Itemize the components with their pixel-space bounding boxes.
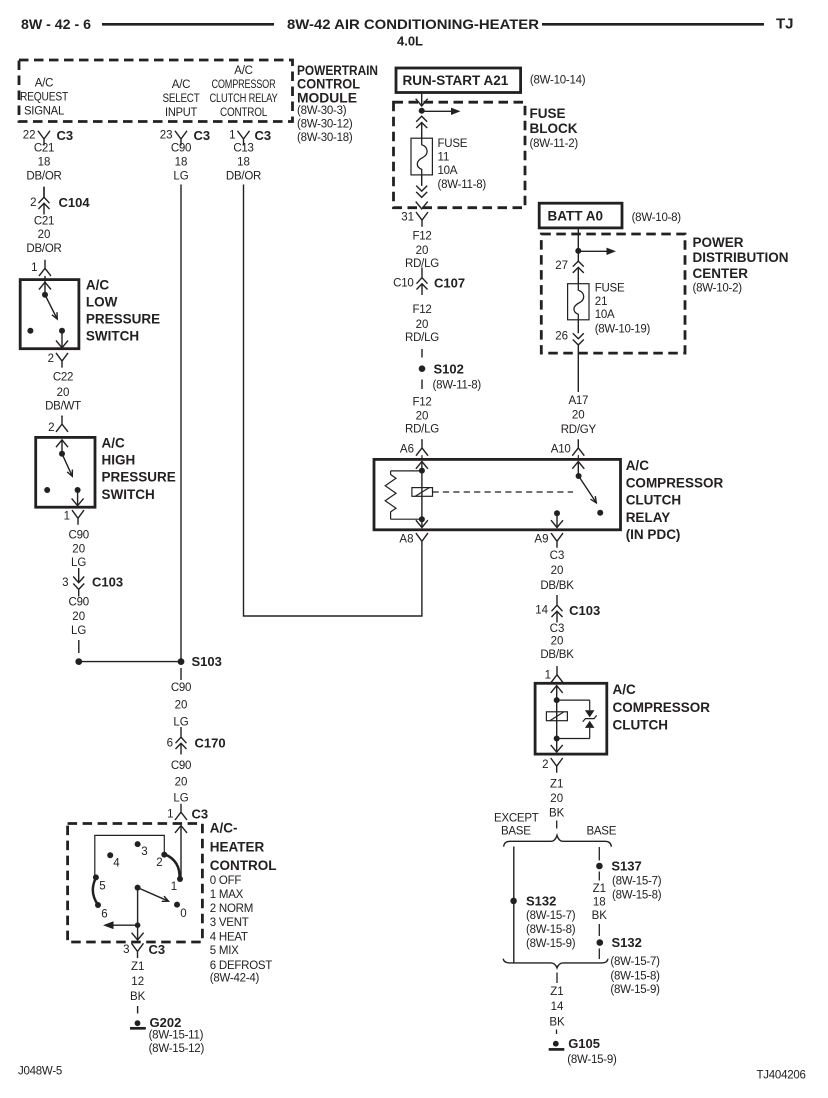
svg-text:SELECT: SELECT <box>163 93 200 105</box>
wire stub above C104 <box>43 187 45 198</box>
svg-text:(8W-15-9): (8W-15-9) <box>567 1054 617 1066</box>
svg-text:11: 11 <box>438 152 450 164</box>
HP switch entry arrow <box>56 440 68 447</box>
relay coil bottom junction dot <box>419 516 425 522</box>
ground G105 symbol <box>553 1041 559 1047</box>
svg-text:5: 5 <box>99 881 105 893</box>
svg-text:A/C: A/C <box>35 78 53 90</box>
heater control junction dot <box>135 922 141 928</box>
svg-text:1: 1 <box>171 881 177 893</box>
svg-text:(8W-15-7): (8W-15-7) <box>612 876 662 888</box>
relay A8 exit arrow <box>416 520 428 527</box>
svg-text:S137: S137 <box>611 859 641 874</box>
svg-text:REQUEST: REQUEST <box>20 92 68 104</box>
clutch top junction dot <box>554 697 560 703</box>
option split brace <box>504 835 612 846</box>
svg-text:18: 18 <box>175 157 188 169</box>
svg-text:LG: LG <box>173 171 188 183</box>
svg-text:C10: C10 <box>393 277 413 289</box>
heater control contact 1 dot <box>177 876 183 882</box>
LP switch NC contact dot <box>27 328 33 334</box>
svg-text:DB/BK: DB/BK <box>540 580 574 592</box>
wire base branch (dashed) <box>598 847 600 861</box>
svg-text:C90: C90 <box>69 597 89 609</box>
heater control arc contact 5 to 6 <box>93 878 98 904</box>
svg-text:8W - 42 - 6: 8W - 42 - 6 <box>21 16 91 32</box>
wire A10 fork into relay box <box>577 455 579 459</box>
relay A9 wire <box>556 513 558 527</box>
svg-text:LOW: LOW <box>86 295 118 310</box>
svg-text:C3: C3 <box>57 128 74 143</box>
heater control contact 4 dot <box>107 852 113 858</box>
wire clutch fork into box <box>556 682 558 683</box>
HP switch exit wire <box>77 490 79 506</box>
svg-text:CONTROL: CONTROL <box>220 107 268 119</box>
clutch diode branch top lead <box>557 699 590 701</box>
svg-text:COMPRESSOR: COMPRESSOR <box>626 475 724 490</box>
heater control contact 2 dot <box>161 852 167 858</box>
svg-text:(8W-15-7): (8W-15-7) <box>526 910 576 922</box>
svg-text:0: 0 <box>180 908 186 920</box>
HP switch NC contact dot <box>44 487 50 493</box>
relay coil top junction dot <box>419 468 425 474</box>
splice S103 dot <box>178 658 185 665</box>
svg-text:BK: BK <box>592 910 608 922</box>
svg-text:(8W-11-2): (8W-11-2) <box>530 138 579 150</box>
PCM dashed box <box>19 60 293 122</box>
svg-text:1: 1 <box>229 130 235 142</box>
LP switch exit arrow <box>56 341 68 348</box>
heater control left arrow head <box>103 921 114 929</box>
svg-text:FUSE: FUSE <box>530 106 566 121</box>
wire stub above S103 left dot <box>78 640 80 653</box>
heater control rail wire 2-to-5 <box>95 835 165 877</box>
splice S132 (except base) dot <box>510 898 517 905</box>
svg-text:A/C: A/C <box>86 278 110 293</box>
svg-text:DB/OR: DB/OR <box>26 243 61 255</box>
LP switch entry arrow <box>39 282 51 289</box>
svg-text:PRESSURE: PRESSURE <box>102 470 176 485</box>
clutch entry arrow <box>551 686 563 693</box>
svg-text:DISTRIBUTION: DISTRIBUTION <box>693 250 789 265</box>
svg-text:C90: C90 <box>69 530 89 542</box>
svg-text:14: 14 <box>535 604 548 616</box>
svg-text:1: 1 <box>167 809 173 821</box>
svg-text:A10: A10 <box>551 444 571 456</box>
fuse 21 terminal chevrons (bottom) <box>573 333 584 345</box>
A/C high pressure switch box <box>36 437 95 507</box>
ground G202 symbol <box>135 1020 141 1026</box>
svg-text:CONTROL: CONTROL <box>297 77 360 92</box>
svg-text:TJ404206: TJ404206 <box>757 1069 806 1081</box>
svg-text:C90: C90 <box>171 143 191 155</box>
LP switch common contact dot <box>42 292 48 298</box>
wire PDC exit down <box>577 345 579 392</box>
svg-text:21: 21 <box>595 296 608 308</box>
fuse block dashed box <box>394 102 526 208</box>
svg-text:SWITCH: SWITCH <box>102 487 155 502</box>
splice S102 dot <box>419 365 426 372</box>
svg-text:0 OFF: 0 OFF <box>210 875 242 887</box>
svg-text:(8W-15-12): (8W-15-12) <box>149 1043 205 1055</box>
svg-text:C21: C21 <box>34 143 54 155</box>
svg-text:SIGNAL: SIGNAL <box>24 106 65 118</box>
svg-text:C3: C3 <box>550 550 565 562</box>
svg-text:(8W-30-18): (8W-30-18) <box>297 132 353 144</box>
resistor (relay) zigzag <box>385 471 396 519</box>
svg-text:F12: F12 <box>412 396 431 408</box>
svg-text:F12: F12 <box>412 304 431 316</box>
svg-text:Z1: Z1 <box>593 883 606 895</box>
wire stub below S102 <box>421 380 423 390</box>
svg-text:20: 20 <box>572 410 585 422</box>
svg-text:S132: S132 <box>612 935 642 950</box>
svg-text:INPUT: INPUT <box>165 107 197 119</box>
LP switch arm <box>45 295 57 319</box>
svg-text:20: 20 <box>175 776 188 788</box>
svg-text:CLUTCH: CLUTCH <box>613 717 669 732</box>
resistor (relay) top lead <box>391 470 422 472</box>
svg-text:2: 2 <box>48 353 54 365</box>
svg-text:4 HEAT: 4 HEAT <box>210 932 248 944</box>
svg-text:(8W-42-4): (8W-42-4) <box>210 973 260 985</box>
svg-text:(8W-10-8): (8W-10-8) <box>632 212 682 224</box>
relay A9 exit arrow <box>551 520 563 527</box>
svg-text:23: 23 <box>160 130 173 142</box>
wire to fuse 21 <box>577 267 579 283</box>
HP switch output contact dot <box>75 487 81 493</box>
svg-text:C103: C103 <box>569 603 600 618</box>
wire stub below S103 <box>180 668 182 680</box>
splice S103 left end dot <box>75 658 82 665</box>
svg-text:18: 18 <box>237 157 250 169</box>
heater control entry wire <box>180 826 182 879</box>
svg-text:20: 20 <box>72 544 85 556</box>
svg-text:RD/LG: RD/LG <box>405 424 439 436</box>
svg-text:C22: C22 <box>53 371 73 383</box>
svg-text:C170: C170 <box>195 736 226 751</box>
relay switch common dot <box>576 473 582 479</box>
LP switch wire to common contact <box>44 282 46 295</box>
svg-text:DB/OR: DB/OR <box>226 171 261 183</box>
svg-text:(8W-15-8): (8W-15-8) <box>526 924 576 936</box>
svg-text:6: 6 <box>101 908 107 920</box>
wire below fuse 21 <box>577 320 579 333</box>
fuse block feed junction dot <box>419 108 425 114</box>
svg-text:(8W-15-9): (8W-15-9) <box>610 984 660 996</box>
svg-text:(8W-15-8): (8W-15-8) <box>610 970 660 982</box>
svg-text:(8W-15-11): (8W-15-11) <box>149 1030 204 1042</box>
svg-text:(8W-15-7): (8W-15-7) <box>610 956 660 968</box>
svg-text:12: 12 <box>131 976 144 988</box>
svg-text:20: 20 <box>551 565 564 577</box>
heater control arc contact 2 to 1 <box>165 854 180 878</box>
svg-text:14: 14 <box>551 1001 564 1013</box>
svg-text:C3: C3 <box>149 942 166 957</box>
wire RUN-START to fuse block <box>421 93 423 106</box>
heater control wire to left arrow <box>112 924 138 926</box>
svg-text:MODULE: MODULE <box>297 91 357 106</box>
svg-text:18: 18 <box>593 896 606 908</box>
svg-text:LG: LG <box>71 557 86 569</box>
svg-text:A17: A17 <box>568 395 588 407</box>
svg-text:Z1: Z1 <box>550 986 563 998</box>
heater control wiper arm <box>138 888 169 902</box>
svg-text:F12: F12 <box>412 231 431 243</box>
svg-text:27: 27 <box>555 260 568 272</box>
svg-text:20: 20 <box>416 411 429 423</box>
svg-text:G105: G105 <box>568 1036 600 1051</box>
clutch diode branch bottom lead <box>589 728 591 739</box>
svg-text:C90: C90 <box>171 760 191 772</box>
wire stub above G105 <box>556 1030 558 1035</box>
A/C low pressure switch box <box>20 280 79 349</box>
svg-text:10A: 10A <box>595 309 615 321</box>
svg-text:8W-42 AIR CONDITIONING-HEATER: 8W-42 AIR CONDITIONING-HEATER <box>287 16 539 32</box>
relay A6 entry arrow <box>416 462 428 469</box>
fuse block exit arrow <box>416 202 428 209</box>
svg-text:C3: C3 <box>192 807 209 822</box>
svg-text:BK: BK <box>549 808 565 820</box>
svg-text:RUN-START A21: RUN-START A21 <box>403 73 509 88</box>
clutch suppression diode <box>585 710 595 717</box>
svg-text:2: 2 <box>542 759 548 771</box>
svg-text:6: 6 <box>167 738 173 750</box>
svg-text:2: 2 <box>30 197 36 209</box>
svg-text:1: 1 <box>64 511 70 523</box>
svg-text:C21: C21 <box>34 215 54 227</box>
heater control wire pivot down <box>137 888 139 926</box>
svg-text:A8: A8 <box>399 533 413 545</box>
HP switch arm <box>62 454 72 477</box>
splice S103 horizontal wire <box>79 661 181 663</box>
svg-text:A/C-: A/C- <box>210 821 238 836</box>
wire base branch lower (dashed) <box>598 924 600 936</box>
option merge brace <box>503 959 608 968</box>
svg-text:FUSE: FUSE <box>595 282 625 294</box>
svg-text:A/C: A/C <box>234 65 252 77</box>
svg-text:A9: A9 <box>534 533 548 545</box>
svg-text:20: 20 <box>38 229 51 241</box>
svg-text:S103: S103 <box>192 654 222 669</box>
heater control contact 3 dot <box>135 841 141 847</box>
wire BATT to PDC fuse <box>577 228 579 261</box>
svg-text:EXCEPT: EXCEPT <box>494 813 539 825</box>
fuse 11 element <box>411 138 432 175</box>
svg-text:COMPRESSOR: COMPRESSOR <box>613 700 711 715</box>
svg-text:2: 2 <box>48 422 54 434</box>
svg-text:A6: A6 <box>400 444 414 456</box>
svg-text:C90: C90 <box>171 682 191 694</box>
svg-text:BATT A0: BATT A0 <box>548 208 604 223</box>
svg-text:20: 20 <box>551 636 564 648</box>
fuse block feed arrow <box>422 110 452 112</box>
A/C compressor clutch relay box <box>374 459 621 529</box>
fuse 21 terminal chevrons (top) <box>573 261 584 273</box>
relay A9 pickup dot <box>554 510 560 516</box>
svg-text:G202: G202 <box>150 1015 182 1030</box>
relay coil symbol <box>412 488 433 497</box>
svg-text:(IN PDC): (IN PDC) <box>626 527 681 542</box>
svg-text:1 MAX: 1 MAX <box>210 889 244 901</box>
svg-text:6 DEFROST: 6 DEFROST <box>210 960 273 972</box>
svg-text:CONTROL: CONTROL <box>210 858 277 873</box>
svg-text:C103: C103 <box>92 575 123 590</box>
wire A6 fork into relay box <box>421 455 423 459</box>
svg-text:3: 3 <box>123 944 129 956</box>
PDC feed arrow <box>578 250 607 252</box>
svg-text:A/C: A/C <box>613 682 637 697</box>
svg-text:CLUTCH: CLUTCH <box>626 493 682 508</box>
svg-text:20: 20 <box>175 700 188 712</box>
fuse block entry arrow <box>416 99 428 106</box>
svg-text:2: 2 <box>156 857 162 869</box>
svg-text:BASE: BASE <box>586 825 616 837</box>
wire stub below merge <box>556 973 558 984</box>
wire relay control PCM to relay A8 <box>244 185 422 617</box>
svg-text:FUSE: FUSE <box>438 138 468 150</box>
relay A10 entry arrow <box>572 462 584 469</box>
svg-text:J048W-5: J048W-5 <box>18 1065 62 1077</box>
svg-text:(8W-15-9): (8W-15-9) <box>526 938 576 950</box>
relay A10 wire <box>577 462 579 477</box>
svg-text:3: 3 <box>141 846 147 858</box>
svg-text:1: 1 <box>31 262 37 274</box>
wire stub above option split <box>556 821 558 829</box>
svg-text:Z1: Z1 <box>131 961 144 973</box>
LP switch output contact dot <box>59 328 65 334</box>
svg-text:BK: BK <box>130 991 146 1003</box>
svg-text:TJ: TJ <box>776 16 794 33</box>
svg-text:20: 20 <box>550 793 563 805</box>
svg-text:(8W-10-14): (8W-10-14) <box>530 74 586 86</box>
svg-text:(8W-15-8): (8W-15-8) <box>612 890 662 902</box>
svg-text:BASE: BASE <box>501 825 531 837</box>
svg-text:18: 18 <box>38 157 51 169</box>
svg-text:CLUTCH RELAY: CLUTCH RELAY <box>210 93 278 105</box>
wire stub above G202 <box>137 1006 139 1014</box>
clutch coil symbol <box>546 712 567 721</box>
LP switch exit wire <box>61 331 63 348</box>
svg-text:LG: LG <box>71 625 86 637</box>
svg-text:10A: 10A <box>438 165 458 177</box>
svg-text:HIGH: HIGH <box>102 453 136 468</box>
svg-text:4: 4 <box>113 858 120 870</box>
resistor (relay) bottom lead <box>391 518 422 520</box>
svg-text:20: 20 <box>416 245 429 257</box>
heater control contact 6 dot <box>95 902 101 908</box>
svg-text:20: 20 <box>416 319 429 331</box>
heater control entry arrow <box>175 826 187 833</box>
svg-text:2 NORM: 2 NORM <box>210 903 253 915</box>
svg-text:5 MIX: 5 MIX <box>210 945 239 957</box>
fuse 11 terminal chevrons (top) <box>416 116 427 128</box>
wire into LP switch <box>44 276 46 282</box>
svg-text:PRESSURE: PRESSURE <box>86 312 160 327</box>
svg-text:(8W-30-12): (8W-30-12) <box>297 119 353 131</box>
A/C-heater control dashed box <box>68 824 203 943</box>
HP switch exit arrow <box>72 498 84 505</box>
svg-text:1: 1 <box>545 669 551 681</box>
svg-text:(8W-10-19): (8W-10-19) <box>595 324 651 336</box>
fuse 11 terminal chevrons (bottom) <box>416 186 427 198</box>
svg-text:LG: LG <box>173 792 188 804</box>
PDC feed junction dot <box>575 248 581 254</box>
clutch bottom junction dot <box>554 736 560 742</box>
svg-text:(8W-10-2): (8W-10-2) <box>693 282 743 294</box>
heater control exit wire <box>137 925 139 940</box>
splice S132 (base) dot <box>597 939 604 946</box>
svg-text:C107: C107 <box>434 275 465 290</box>
svg-text:26: 26 <box>555 331 568 343</box>
wire except-base branch <box>513 847 515 963</box>
A/C compressor clutch box <box>535 683 607 754</box>
RUN-START A21 box <box>396 68 521 93</box>
svg-text:(8W-11-8): (8W-11-8) <box>433 380 482 392</box>
svg-text:3: 3 <box>62 577 68 589</box>
svg-text:RD/LG: RD/LG <box>405 332 439 344</box>
splice S137 dot <box>596 863 603 870</box>
svg-text:20: 20 <box>57 387 70 399</box>
svg-text:A/C: A/C <box>626 458 650 473</box>
svg-text:(8W-30-3): (8W-30-3) <box>297 105 347 117</box>
HP switch common contact dot <box>59 451 65 457</box>
svg-text:RD/GY: RD/GY <box>561 424 597 436</box>
svg-text:DB/WT: DB/WT <box>45 401 81 413</box>
fuse 21 element <box>568 284 589 320</box>
svg-text:CENTER: CENTER <box>693 266 749 281</box>
svg-text:3 VENT: 3 VENT <box>210 917 249 929</box>
svg-text:SWITCH: SWITCH <box>86 329 139 344</box>
svg-text:C13: C13 <box>233 143 253 155</box>
relay coil wire <box>421 462 423 528</box>
relay switch arm <box>579 476 597 503</box>
heater control exit arrow <box>132 933 144 940</box>
svg-text:4.0L: 4.0L <box>397 34 423 49</box>
svg-text:C3: C3 <box>550 623 565 635</box>
clutch main wire <box>556 686 558 752</box>
wire stub above S102 <box>421 349 423 358</box>
header left rule line <box>102 23 274 26</box>
svg-text:POWER: POWER <box>693 235 744 250</box>
svg-text:31: 31 <box>401 211 414 223</box>
svg-text:HEATER: HEATER <box>210 840 265 855</box>
svg-text:BK: BK <box>549 1016 565 1028</box>
heater control contact 5 dot <box>93 874 99 880</box>
clutch exit arrow <box>551 745 563 752</box>
svg-text:S132: S132 <box>526 893 556 908</box>
svg-text:DB/BK: DB/BK <box>540 649 574 661</box>
header right rule line <box>542 23 764 26</box>
BATT A0 box <box>539 203 622 228</box>
wire from PCM select input to S103 <box>180 185 182 662</box>
HP switch wire to common contact <box>61 440 63 454</box>
wire to fuse 11 <box>421 123 423 139</box>
heater control wiper pivot dot <box>135 885 141 891</box>
heater control contact 0 dot <box>174 902 180 908</box>
svg-text:(8W-11-8): (8W-11-8) <box>438 179 487 191</box>
svg-text:Z1: Z1 <box>550 779 563 791</box>
svg-text:LG: LG <box>173 717 188 729</box>
svg-text:S102: S102 <box>434 362 464 377</box>
svg-text:20: 20 <box>72 611 85 623</box>
svg-text:BLOCK: BLOCK <box>530 121 578 136</box>
svg-text:22: 22 <box>23 130 36 142</box>
svg-text:C3: C3 <box>194 128 211 143</box>
svg-text:A/C: A/C <box>172 79 190 91</box>
svg-text:COMPRESSOR: COMPRESSOR <box>212 79 276 91</box>
svg-text:C104: C104 <box>59 195 91 210</box>
